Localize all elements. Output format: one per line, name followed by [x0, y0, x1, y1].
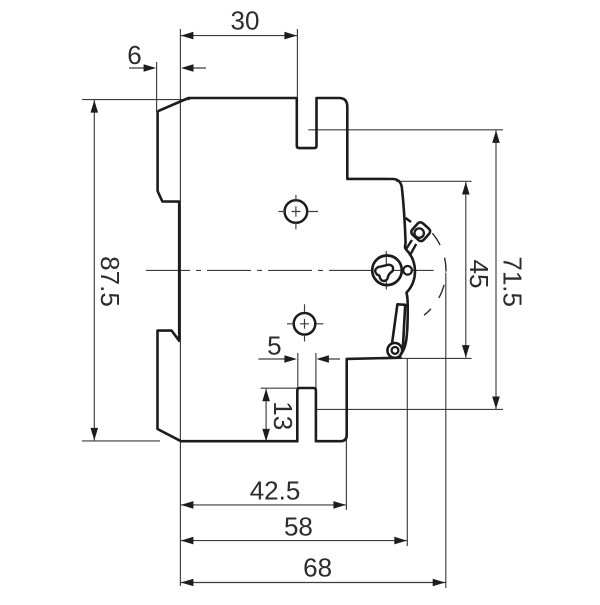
lever knob hole	[415, 228, 424, 237]
svg-text:5: 5	[267, 331, 281, 361]
extension line x=297.4 (right of dim 30)	[296, 29, 298, 97]
dim 87.5 arrow bottom	[91, 428, 99, 441]
dim 30 line	[180, 35, 297, 37]
body outline	[158, 98, 415, 355]
dim 45 arrow bottom	[462, 345, 470, 358]
svg-text:58: 58	[284, 512, 313, 542]
lever travel arc (dash)	[423, 224, 446, 315]
extension line x=407.3 (right of dim 58)	[406, 359, 408, 547]
svg-text:45: 45	[464, 260, 494, 289]
extension line y=99.6 (top of dim 87.5)	[82, 99, 190, 101]
lever pivot boss	[387, 343, 402, 358]
dim 42.5 line	[180, 504, 346, 506]
dim 13 arrow top	[262, 389, 270, 402]
dim 6 arrow right (outside pointing left)	[181, 64, 194, 72]
dim 68 arrow right	[433, 579, 446, 587]
dim 71.5 arrow top	[492, 130, 500, 143]
lever knob neck lower b	[410, 244, 417, 256]
lever knob neck upper	[406, 218, 411, 222]
dim 45 line	[465, 182, 467, 358]
dim 5 left tail	[258, 358, 294, 360]
hole top crosshair	[279, 195, 319, 229]
svg-text:30: 30	[231, 6, 260, 36]
extension line x=297.8 (left of dim 5)	[297, 353, 299, 389]
dim 5 arrow right (outside pointing left)	[316, 355, 329, 363]
dim 58 arrow left	[181, 537, 194, 545]
dim 6 line left tail	[129, 67, 154, 69]
dim 42.5 arrow right	[333, 501, 346, 509]
dim 58 arrow right	[394, 537, 407, 545]
hole bottom circle	[294, 313, 316, 335]
dim 6 arrow left (outside pointing right)	[144, 64, 157, 72]
dim 6 right tail	[184, 67, 206, 69]
dim 42.5 arrow left	[181, 501, 194, 509]
dim 68 line	[180, 582, 445, 584]
dim 68 arrow left	[181, 579, 194, 587]
screw tri-wing recess	[375, 265, 393, 281]
dim 30 arrow left	[181, 32, 194, 40]
dim 13 arrow bottom	[262, 429, 270, 442]
svg-text:68: 68	[303, 553, 332, 583]
extension line x=315.9 (right of dim 5)	[315, 353, 317, 389]
body left profile	[158, 111, 402, 441]
svg-text:87.5: 87.5	[95, 256, 125, 307]
extension line y=440.9 (bottom of dim 87.5)	[82, 440, 160, 442]
extension line y=129.8 (top reference of dim 71.5, from top notch)	[308, 129, 503, 131]
lever lower arm bar	[392, 304, 406, 349]
extension line y=388.2 (top of dim 13)	[261, 387, 298, 389]
svg-text:13: 13	[268, 401, 298, 430]
extension line y=409.4 (bottom reference of dim 71.5, from bottom notch)	[316, 408, 503, 410]
dim 71.5 arrow bottom	[492, 397, 500, 410]
lever knob neck lower a	[406, 240, 412, 250]
dim 87.5 arrow top	[91, 100, 99, 113]
dim 5 arrow left (outside pointing right)	[284, 355, 297, 363]
hole bottom crosshair	[287, 304, 324, 341]
lever knob (rotated rounded square)	[410, 221, 432, 243]
dim 5 right tail	[319, 358, 340, 360]
lever pivot hole	[392, 347, 399, 354]
dim 58 line	[180, 540, 407, 542]
svg-text:6: 6	[127, 40, 141, 70]
svg-text:71.5: 71.5	[498, 256, 528, 307]
extension line x=180.4 (rear mounting face, common for dims 30/42.5/58/68)	[179, 29, 181, 586]
dim 45 arrow top	[462, 182, 470, 195]
dim 87.5 line	[93, 100, 95, 440]
extension line x=156.6 (left of dim 6)	[156, 62, 158, 112]
screw head outer circle	[372, 255, 402, 285]
screw side small circle	[403, 266, 412, 275]
dim 13 line	[265, 389, 267, 442]
extension line y=358.4 (bottom reference of dim 45, step level)	[399, 357, 472, 359]
extension line y=181.3 (top reference of dim 45)	[396, 180, 472, 182]
extension line x=445.8 (right of dim 68, from lever travel arc)	[445, 273, 447, 589]
dim 71.5 line	[495, 130, 497, 409]
svg-text:42.5: 42.5	[250, 476, 301, 506]
extension line x=346.4 (right of dim 42.5)	[345, 435, 347, 510]
dim 30 arrow right	[284, 32, 297, 40]
center line (horizontal dash-dot axis through screw)	[146, 269, 434, 271]
screw crosshair vertical	[385, 251, 387, 290]
hole top circle	[285, 200, 308, 223]
